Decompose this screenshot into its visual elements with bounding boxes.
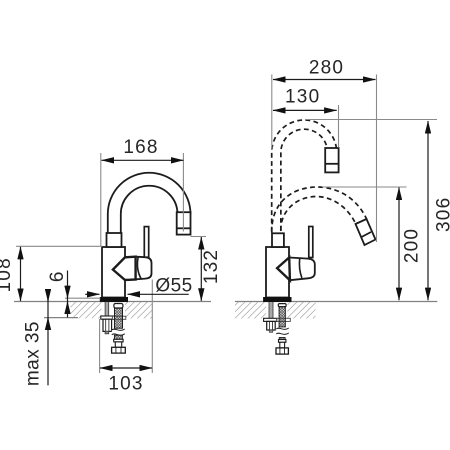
svg-text:306: 306 bbox=[434, 197, 450, 232]
svg-text:max 35: max 35 bbox=[23, 321, 44, 386]
svg-text:132: 132 bbox=[201, 249, 222, 284]
svg-text:103: 103 bbox=[108, 373, 143, 394]
svg-text:168: 168 bbox=[123, 137, 158, 158]
svg-text:108: 108 bbox=[0, 257, 15, 292]
svg-text:280: 280 bbox=[309, 57, 344, 78]
svg-text:6: 6 bbox=[47, 270, 68, 282]
svg-text:130: 130 bbox=[285, 86, 320, 107]
svg-text:200: 200 bbox=[402, 228, 423, 263]
svg-text:Ø55: Ø55 bbox=[155, 275, 192, 296]
